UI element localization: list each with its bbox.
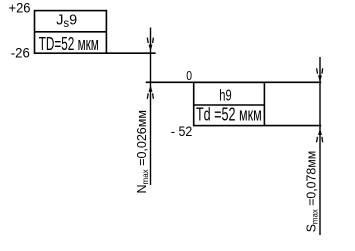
svg-text:- 52: - 52	[171, 123, 192, 139]
tolerance zone box h9	[194, 82, 265, 125]
label Smax = 0,078 mm (rotated)	[304, 151, 320, 233]
arrowhead down at -26 line	[147, 38, 153, 50]
dimension line Smax shaft	[319, 57, 321, 235]
arrowhead up at -52 line (right)	[317, 131, 323, 143]
svg-text:0: 0	[186, 68, 192, 83]
arrowhead down at zero line (right)	[317, 68, 323, 80]
svg-text:h9: h9	[219, 88, 231, 105]
svg-text:+26: +26	[9, 0, 31, 16]
svg-text:TD=52 мкм: TD=52 мкм	[39, 34, 99, 54]
arrowhead up at zero line	[147, 87, 153, 99]
tolerance zone box Js9	[35, 11, 107, 54]
svg-text:Td =52 мкм: Td =52 мкм	[196, 105, 262, 125]
dimension line Nmax shaft	[150, 28, 152, 186]
wire: -26 level extension line	[106, 52, 155, 54]
node: zero line	[146, 81, 322, 83]
wire: -52 level extension line	[264, 125, 321, 127]
label Nmax = 0,026 mm (rotated)	[134, 110, 150, 194]
svg-text:-26: -26	[11, 44, 30, 60]
